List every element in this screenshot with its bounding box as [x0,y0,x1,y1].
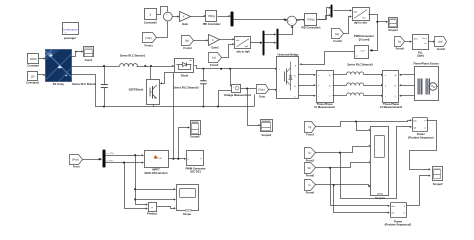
svg-text:Three-Phase Source: Three-Phase Source [413,62,439,66]
wire mux1 long output to sum2 and mux3 [234,14,331,21]
wire dq0-abc output to scope4 and PWM gen [369,15,389,52]
svg-text:Series RLC Branch2: Series RLC Branch2 [173,86,199,90]
svg-text:[wt]: [wt] [438,41,442,44]
svg-text:Series RLC Branch1: Series RLC Branch1 [120,53,146,57]
wire From9 to Scope1 in4 and Power2 Iab [316,184,390,214]
wire From5 to PLL [405,41,412,43]
svg-text:From3: From3 [306,158,315,162]
from tag From6 [wt] [332,29,344,43]
svg-text:PV Array: PV Array [53,82,65,86]
wire PID1 up to mux3 [318,7,331,20]
wire From2 up to abc-dq0 wt input [222,43,235,58]
svg-text:PID Controller1: PID Controller1 [301,25,321,29]
wire abc-dq0 to demux bar1 [251,42,263,44]
wire Power2 P to Scope2 in2 [407,175,431,206]
from tag From4 [Iabc] [182,36,194,50]
svg-text:g: g [295,65,296,67]
svg-text:Constant2: Constant2 [144,21,158,25]
svg-text:[Vdc]: [Vdc] [146,36,152,40]
capacitor Series RLC Branch (input cap) [72,67,108,107]
svg-text:Constant: Constant [27,63,39,67]
svg-text:From9: From9 [306,191,315,195]
node v_PV output [106,152,144,156]
PID controller1 block [301,14,321,30]
transform block abc to dq0 [235,37,251,54]
wire sum2 to PID1 [297,19,305,21]
svg-text:[Vdc]: [Vdc] [259,87,265,91]
wire demux to mux bar2 [265,33,277,44]
diode D1 block [172,59,193,78]
svg-text:Universal Bridge: Universal Bridge [277,53,299,57]
wire From1 to sum bottom [157,22,168,38]
svg-text:From6: From6 [333,39,342,43]
sum block Sum1 [163,12,172,21]
wire duty branch up to Scope5 [179,126,190,158]
svg-text:Goto: Goto [259,94,266,98]
wire Constant1 to PV Array T input [38,74,46,76]
from tag From2 [w] [209,53,222,67]
wire goto to bridge - port [255,89,278,107]
svg-text:From7: From7 [306,133,315,137]
svg-text:Vin: Vin [308,167,312,170]
wire Constant to PV Array Ir input [39,57,46,59]
voltage measurement VM1 [219,69,252,107]
wire PV m output to Goto1 scope [72,50,84,56]
wire VM output with junction [241,87,257,89]
wire From to bus selector [83,158,103,160]
block Power (Positive-Sequence)1 [385,203,412,227]
svg-text:×: × [151,205,153,209]
svg-text:Goto1: Goto1 [85,58,93,62]
wire PV - output down to bottom rail [72,75,255,108]
transform block dq0 to abc [353,8,370,25]
svg-text:PID(s): PID(s) [308,18,315,21]
inductor Series RLC Branch3 (three-phase) [333,62,384,96]
svg-text:From4: From4 [183,46,192,50]
sum block Sum2 [287,16,296,26]
wire From3 to Scope1 in2 and Power1 Iab [316,126,412,199]
capacitor Series RLC Branch2 (DC link cap) [173,69,206,107]
demux bus selector (PV measurements) [103,150,106,168]
svg-text:(DC-DC): (DC-DC) [190,170,200,174]
node i_PV output [106,160,144,164]
svg-text:From2: From2 [210,63,219,67]
block PLL (3ph) [413,35,429,58]
svg-text:25: 25 [31,74,35,78]
PID controller block [203,11,222,27]
wire sum to gain [173,16,180,18]
gain block Gain [180,12,191,27]
from tag From8 [Vin] [305,163,316,178]
svg-text:Scope1: Scope1 [375,196,385,200]
mux Mux2 [277,29,279,50]
svg-text:V-I Measurement: V-I Measurement [314,105,335,109]
wire mux3 to dq0-abc [334,9,352,11]
svg-text:Series RLC Branch: Series RLC Branch [72,82,96,86]
svg-text:<v_PV>: <v_PV> [106,152,115,155]
wire diode output to bridge + [195,66,278,70]
svg-text:From5: From5 [396,47,405,51]
goto tag [Vdc] Goto [257,85,269,99]
wire From8 to Scope1 in3 and Power2 Vab [316,161,390,207]
from tag From1 [Vdc] [143,33,157,48]
PV Array U1 [45,50,71,87]
block Power (Positive-Sequence) [408,118,433,140]
svg-text:Scope2: Scope2 [433,182,443,186]
wire Vdc junction down to Scope3 [248,89,261,127]
svg-text:[Ia]: [Ia] [185,40,189,43]
mux Mux1 [231,12,234,27]
svg-text:Gain: Gain [182,22,188,26]
wire source to V-I measurement1 [399,74,414,97]
wire gain to PID [191,15,206,17]
svg-text:Product: Product [147,211,157,215]
svg-text:(2-Level): (2-Level) [359,37,370,41]
svg-text:Scope5: Scope5 [190,135,200,139]
svg-text:From8: From8 [306,174,315,178]
svg-text:powergui: powergui [64,36,76,40]
from tag From5 [Vg] for PLL [395,37,405,51]
from tag From9 [Iin] [305,180,316,195]
product block Product [147,203,157,216]
svg-text:(3ph): (3ph) [417,54,424,58]
scope Goto1 [84,47,94,62]
wire From6 to dq0-abc wt input [344,15,352,33]
svg-text:Uref: Uref [361,51,365,53]
svg-text:Continuous: Continuous [62,28,78,32]
gain block Gain1 [209,35,220,50]
wire Constant2 over to sum top [157,7,168,15]
svg-text:c: c [385,96,386,98]
wire mux2 up to sum2 bottom [279,26,294,35]
wire PV + output : top DC bus [72,65,153,67]
constant block Constant1 (25) [26,72,40,85]
scope Scope4 [388,18,398,32]
wire product to scope input3 [157,207,176,210]
from tag From (PV measurement) [70,155,83,169]
svg-text:Series RLC Branch3: Series RLC Branch3 [347,62,373,66]
svg-text:Scope4: Scope4 [388,28,398,32]
svg-text:[Pvm]: [Pvm] [72,158,79,161]
svg-text:(Positive-Sequence)1: (Positive-Sequence)1 [385,223,412,227]
wire PID to mux1 [218,15,231,17]
demux Demux1 [263,31,265,56]
wire bridge outputs A B C to V-I measurement [299,74,316,97]
svg-text:dq0 to abc: dq0 to abc [354,21,368,25]
wire PWM gen output to bridge g [299,52,354,66]
svg-text:IGBT/Diode: IGBT/Diode [129,88,144,92]
constant block Constant (1000) [27,54,39,68]
goto tag Goto2 [wt] [435,37,447,51]
from tag From7 [Vg] [305,122,316,137]
svg-text:Scope: Scope [183,212,192,216]
svg-text:PID(s): PID(s) [208,15,215,18]
wire PLL to Goto2 [429,41,436,43]
wire Power1 P to Scope2 in1 [410,121,437,171]
wire i_PV down to product [125,163,148,210]
generator Three-Phase Source [413,62,439,101]
svg-text:From: From [73,164,80,168]
scope Scope1 (tall) [371,127,389,200]
block MPPT MATLAB Function [144,151,168,175]
wire From4 to Gain1 [194,39,209,41]
svg-text:1000: 1000 [30,57,37,61]
scope Scope3 [261,120,273,137]
transistor IGBT/Diode block [129,67,160,107]
svg-text:V-I Measurement1: V-I Measurement1 [380,105,403,109]
svg-text:Scope3: Scope3 [262,133,272,137]
block PWM Generator (DC-DC) [186,151,207,174]
scope Scope2 [433,167,443,186]
svg-text:c: c [318,96,319,98]
svg-text:Gain1: Gain1 [211,46,219,50]
svg-text:Freq: Freq [422,38,426,40]
svg-text:PID Controller: PID Controller [203,22,222,26]
from tag From3 [Ig] [305,148,316,163]
block Three-Phase V-I Measurement [314,71,335,110]
svg-text:Vabc: Vabc [414,39,418,41]
powergui block [62,23,78,41]
block PWM Generator (2-Level), flipped [354,34,375,59]
inductor Series RLC Branch1 [120,53,173,66]
svg-text:[wt]: [wt] [335,33,339,36]
wire MPPT output to PWM DC-DC with branches [169,158,187,160]
svg-text:(Positive-Sequence): (Positive-Sequence) [408,135,433,139]
constant Constant2 (value 1) [144,9,158,25]
scope Scope (main) [177,185,199,217]
svg-text:Goto2: Goto2 [437,47,445,51]
svg-text:From1: From1 [145,43,154,47]
svg-text:abc to dq0: abc to dq0 [236,50,250,54]
op-amp Universal Bridge U2 [277,53,300,99]
wire Gain1 to abc-dq0 [220,38,235,40]
svg-text:Diode: Diode [181,74,189,78]
scope Scope5 [190,121,200,139]
svg-text:PWM Generator: PWM Generator [354,34,375,38]
svg-text:1: 1 [149,13,151,17]
wire duty branch up to IGBT gate [160,73,174,159]
svg-text:[w]: [w] [212,57,216,60]
wire From7 to Power1 and Scope1 in1 [316,119,412,131]
svg-text:MATLAB Function: MATLAB Function [144,171,167,175]
mux Mux3 [331,5,333,18]
wire v_PV down to scope and product [134,156,176,206]
svg-text:Constant1: Constant1 [26,80,40,84]
block Three-Phase V-I Measurement1 [380,71,403,110]
